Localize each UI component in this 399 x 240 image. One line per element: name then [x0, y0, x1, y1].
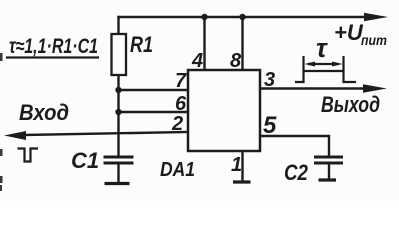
- wire: C2 bottom lead: [328, 164, 330, 178]
- ground (pin 1): [233, 180, 251, 183]
- arrow input (points left): [4, 131, 26, 140]
- wire: pin 1 lead: [241, 151, 243, 180]
- svg-text:6: 6: [175, 93, 187, 115]
- svg-text:пит: пит: [361, 32, 387, 48]
- svg-text:2: 2: [171, 113, 183, 135]
- node: junction R1 / pin 7: [115, 87, 121, 93]
- wire: pin 6 connection: [119, 111, 189, 113]
- IC DA1 timer body: [188, 70, 260, 151]
- svg-text:4: 4: [191, 50, 203, 72]
- svg-text:5: 5: [263, 112, 277, 139]
- svg-text:C1: C1: [71, 148, 99, 173]
- input pulse symbol (negative pulse): [18, 149, 39, 162]
- wire: C1 bottom lead: [117, 164, 119, 181]
- wire: pin 4 vertical: [203, 17, 205, 70]
- wire: R1 top lead: [117, 17, 119, 34]
- ground (C1): [105, 182, 130, 185]
- wire: top supply rail: [119, 16, 367, 18]
- svg-text:R1: R1: [130, 32, 153, 57]
- wire: input line to pin 2: [24, 132, 188, 135]
- svg-text:3: 3: [264, 69, 275, 91]
- svg-text:8: 8: [230, 50, 242, 72]
- svg-text:1: 1: [231, 154, 242, 176]
- capacitor C2: [314, 157, 343, 163]
- wire: R1 bottom lead down to C1: [117, 75, 119, 156]
- wire: pin 8 vertical: [241, 17, 243, 70]
- wire: output line from pin 3: [260, 87, 364, 89]
- svg-text:τ≈1,1·R1·C1: τ≈1,1·R1·C1: [9, 35, 98, 58]
- wire: pin 5 to C2: [260, 136, 329, 156]
- formula underline: [6, 56, 99, 58]
- svg-text:C2: C2: [284, 160, 309, 185]
- ground (C2): [319, 178, 337, 181]
- resistor R1: [112, 34, 127, 75]
- svg-text:Вход: Вход: [19, 100, 69, 125]
- svg-text:+U: +U: [334, 20, 364, 45]
- svg-text:Выход: Выход: [321, 92, 380, 117]
- svg-text:τ: τ: [316, 33, 328, 63]
- svg-text:DA1: DA1: [160, 159, 195, 181]
- capacitor C1: [104, 157, 134, 163]
- arrow output: [363, 84, 387, 92]
- node: junction pin 6: [115, 109, 121, 115]
- node: junction top rail / pin 4: [201, 14, 207, 20]
- node: junction top rail / pin 8: [239, 14, 245, 20]
- arrow +Upit: [364, 13, 388, 21]
- wire: pin 7 connection: [119, 89, 189, 91]
- scan artifacts at left edge: [0, 53, 3, 61]
- output pulse waveform: [295, 56, 356, 82]
- svg-text:7: 7: [175, 70, 187, 92]
